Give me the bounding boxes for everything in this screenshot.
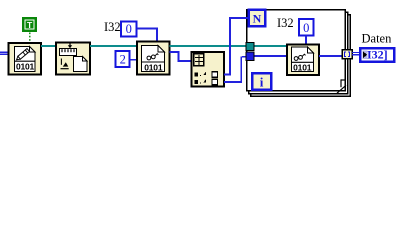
refnum wire icon1 to icon2: [41, 45, 56, 47]
svg-text:I32: I32: [277, 16, 294, 30]
svg-text:I32]: I32]: [367, 48, 388, 62]
wire 0 to icon3 top: [137, 28, 158, 44]
refnum tunnel (on left border): [246, 42, 255, 51]
I32 tunnel (on left border): [246, 52, 255, 62]
page curl (bottom-right inside loop): [337, 79, 346, 93]
I32 constant 2: [116, 51, 130, 67]
Read from Binary File icon U5 (in loop): [287, 45, 319, 76]
offset wire tunnel to in-loop read: [255, 55, 288, 57]
wire row1 to N count terminal: [224, 17, 249, 76]
count terminal N: [249, 10, 266, 27]
0101 box: [142, 61, 165, 63]
wire 0 to in-loop read icon: [305, 36, 307, 45]
svg-text:N: N: [253, 11, 262, 25]
svg-text:0: 0: [126, 22, 132, 36]
for loop (stacked frames): [246, 9, 351, 97]
glasses: [147, 54, 158, 60]
row 1: index/element: [195, 72, 218, 78]
boolean wire (dotted green): [29, 33, 31, 44]
svg-text:2: 2: [120, 53, 126, 67]
I32 constant 0: [121, 22, 137, 37]
0101 box: [292, 61, 314, 63]
path wire (double blue) into Write icon: [0, 52, 9, 55]
indexing output tunnel: [342, 50, 352, 59]
page: [292, 47, 314, 72]
wire 2 to icon3: [130, 59, 138, 61]
svg-text:i: i: [260, 74, 264, 89]
svg-text:0: 0: [303, 21, 309, 35]
svg-text:0101: 0101: [293, 62, 312, 72]
boolean constant TRUE: [22, 17, 37, 32]
refnum wire tunnel to in-loop read: [255, 45, 288, 47]
frame 3 (back): [349, 14, 352, 16]
page: [142, 46, 165, 72]
in-loop I32 constant 0: [299, 19, 314, 36]
data wire icon3 to Index Array: [170, 51, 192, 62]
0101 box: [15, 60, 36, 62]
ruler: [60, 49, 77, 56]
svg-text:Daten: Daten: [362, 32, 393, 46]
data wire read icon to output tunnel: [319, 55, 342, 57]
pencil: [15, 49, 29, 62]
refnum wire icon3 to loop tunnel: [170, 45, 247, 47]
frame 1 (main loop border): [246, 9, 346, 11]
Read from Binary File icon U3: [137, 42, 170, 75]
wire row2 to loop tunnel: [224, 56, 247, 83]
frame 2 (middle): [346, 12, 349, 14]
array wire (double) tunnel to indicator: [352, 52, 360, 56]
Index Array icon U4: [192, 52, 225, 87]
row 2: index/element: [195, 79, 218, 85]
svg-text:T: T: [27, 20, 33, 30]
glasses: [294, 54, 305, 60]
page with folded corner: [15, 47, 36, 72]
Write to Binary File icon U1: [9, 43, 42, 75]
Daten I32 array indicator: [360, 48, 394, 62]
Set File Position icon U2: [56, 43, 90, 75]
array grid: [194, 54, 204, 66]
refnum wire icon2 to icon3: [90, 45, 137, 47]
down arrow: [69, 43, 71, 46]
iteration terminal i: [252, 73, 271, 90]
svg-text:0101: 0101: [16, 62, 35, 72]
position marker glyph: [60, 59, 62, 65]
page: [74, 57, 88, 72]
svg-text:0101: 0101: [144, 62, 163, 72]
svg-text:I32: I32: [104, 20, 121, 34]
